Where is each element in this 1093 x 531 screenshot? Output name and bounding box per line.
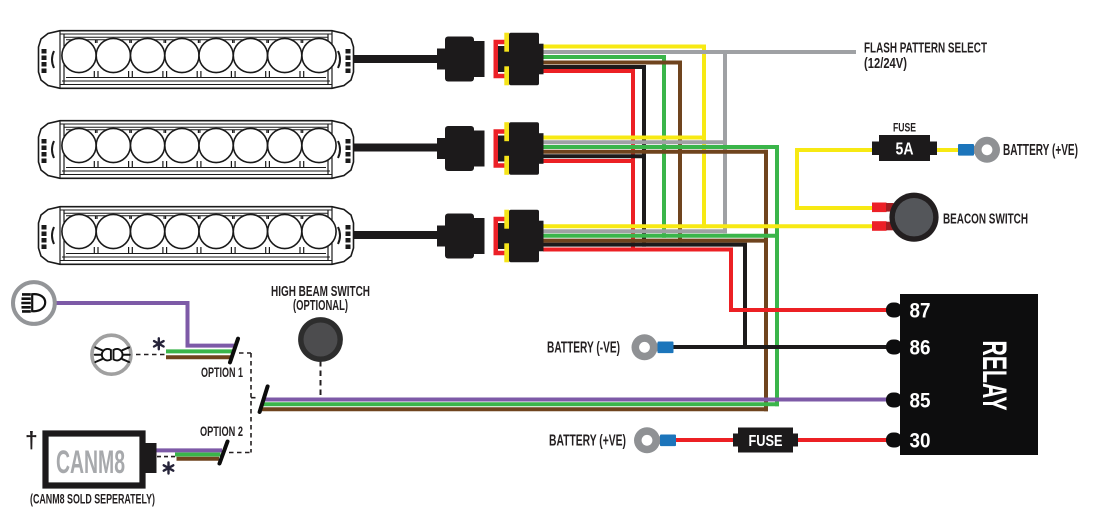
dashed lead from CANM8	[157, 456, 175, 458]
cable bar3	[353, 231, 440, 239]
svg-text:RELAY: RELAY	[975, 341, 1013, 411]
wire yellow beacon switch to fuse 5A	[797, 150, 880, 208]
svg-text:87: 87	[910, 299, 931, 323]
slash main bundle	[260, 386, 268, 412]
wire green option 1	[166, 349, 233, 353]
wire red bar3 to relay 87	[543, 250, 894, 311]
wire black battery negative to relay 86	[671, 345, 894, 349]
ring terminal battery negative	[632, 334, 674, 360]
dashed link option1 slash to option2 slash	[229, 353, 258, 453]
pin 86 stub	[886, 340, 902, 355]
wire black bar3 to relay 86	[543, 245, 745, 347]
high beam indicator icon	[92, 335, 131, 374]
wire gray bar1 to flash pattern select	[543, 50, 856, 54]
wire green vertical drop (bar 1)	[662, 55, 666, 238]
fuse F2 inline bottom	[733, 428, 798, 453]
wire brown option 1	[166, 355, 232, 359]
wire brown option 2	[177, 457, 220, 461]
ring terminal battery positive bottom	[634, 427, 676, 453]
svg-text:BEACON SWITCH: BEACON SWITCH	[943, 212, 1028, 228]
connector pair bar1	[437, 33, 544, 86]
svg-text:OPTION 1: OPTION 1	[201, 365, 243, 380]
wire green bar3	[543, 234, 779, 238]
dashed drop from high beam switch	[320, 361, 322, 397]
wire purple bundle to relay 85	[262, 398, 892, 402]
wire black bar1	[543, 65, 646, 69]
cable bar1	[353, 55, 440, 63]
svg-text:(12/24V): (12/24V)	[864, 55, 907, 72]
wire black vertical drop (bars 1+2)	[642, 65, 646, 247]
wire red battery positive to fuse to relay 30	[672, 438, 894, 442]
headlamp high beam icon	[13, 282, 55, 324]
light bar 3	[39, 207, 354, 265]
pin 30 stub	[886, 433, 902, 448]
pin 87 stub	[886, 303, 902, 318]
svg-text:BATTERY (+VE): BATTERY (+VE)	[1003, 142, 1078, 159]
slash option 1	[230, 339, 238, 363]
svg-text:CANM8: CANM8	[56, 444, 125, 480]
fuse F1 5A holder	[872, 121, 937, 162]
wire purple option 2 from CANM8	[156, 448, 222, 452]
wire brown vertical drop (bar 1)	[678, 61, 682, 243]
svg-text:FUSE: FUSE	[749, 433, 783, 450]
light bar 1	[39, 31, 354, 89]
connector pair bar2	[437, 122, 544, 175]
svg-text:(OPTIONAL): (OPTIONAL)	[293, 298, 348, 314]
wire red bar1	[543, 69, 635, 73]
beacon switch	[889, 193, 938, 242]
wire brown bar3	[543, 239, 768, 243]
connector pair bar3	[437, 210, 544, 263]
beacon switch terminal top	[872, 203, 894, 213]
wire yellow bar1	[543, 45, 706, 49]
svg-text:86: 86	[910, 336, 931, 360]
relay K1	[886, 294, 1038, 455]
beacon switch terminal bottom	[872, 221, 894, 231]
wire green option 2	[175, 453, 221, 457]
wire green vertical to bundle	[775, 145, 779, 406]
svg-text:OPTION 2: OPTION 2	[200, 424, 243, 439]
wire gray bar2	[543, 140, 727, 144]
svg-text:BATTERY (-VE): BATTERY (-VE)	[547, 340, 620, 357]
svg-text:BATTERY (+VE): BATTERY (+VE)	[549, 433, 626, 450]
svg-text:†: †	[25, 427, 38, 453]
wire brown bundle	[261, 407, 768, 411]
wire red vertical drop (bars 1+2)	[631, 69, 635, 252]
asterisk option 2	[164, 463, 174, 474]
svg-text:(CANM8 SOLD SEPERATELY): (CANM8 SOLD SEPERATELY)	[30, 492, 155, 507]
wire purple from headlamp icon to option 1	[52, 303, 234, 346]
svg-text:30: 30	[910, 429, 931, 453]
wire yellow fuse to battery positive	[931, 148, 960, 152]
wire yellow vertical drop (bars 1+2)	[702, 45, 706, 229]
wire green bundle	[261, 402, 779, 406]
ring terminal battery positive top	[958, 137, 1000, 163]
pin 85 stub	[886, 393, 902, 408]
asterisk option 1	[154, 338, 164, 349]
svg-text:5A: 5A	[896, 139, 914, 159]
wire green bar1	[543, 55, 666, 59]
slash option 2	[220, 442, 228, 464]
relay body	[900, 294, 1038, 455]
wire black bar2	[543, 154, 646, 158]
wire brown bar1	[543, 61, 682, 65]
wire brown bar2	[543, 150, 768, 154]
cable bar2	[353, 144, 440, 152]
svg-text:85: 85	[910, 389, 931, 413]
wire yellow bar3 to beacon switch	[543, 224, 872, 228]
wire green bar2	[543, 145, 779, 149]
wire gray bar3	[543, 229, 727, 233]
dashed lead from high-beam indicator icon	[128, 354, 166, 356]
wire gray vertical riser (bars 2+3)	[723, 50, 727, 233]
svg-text:FUSE: FUSE	[893, 121, 916, 135]
wire yellow bar2	[543, 136, 706, 140]
high beam switch	[298, 317, 343, 362]
CANM8 module	[46, 434, 157, 486]
wire brown vertical to bundle	[764, 150, 768, 412]
light bar 2	[39, 121, 354, 179]
wire red bar2	[543, 159, 635, 163]
